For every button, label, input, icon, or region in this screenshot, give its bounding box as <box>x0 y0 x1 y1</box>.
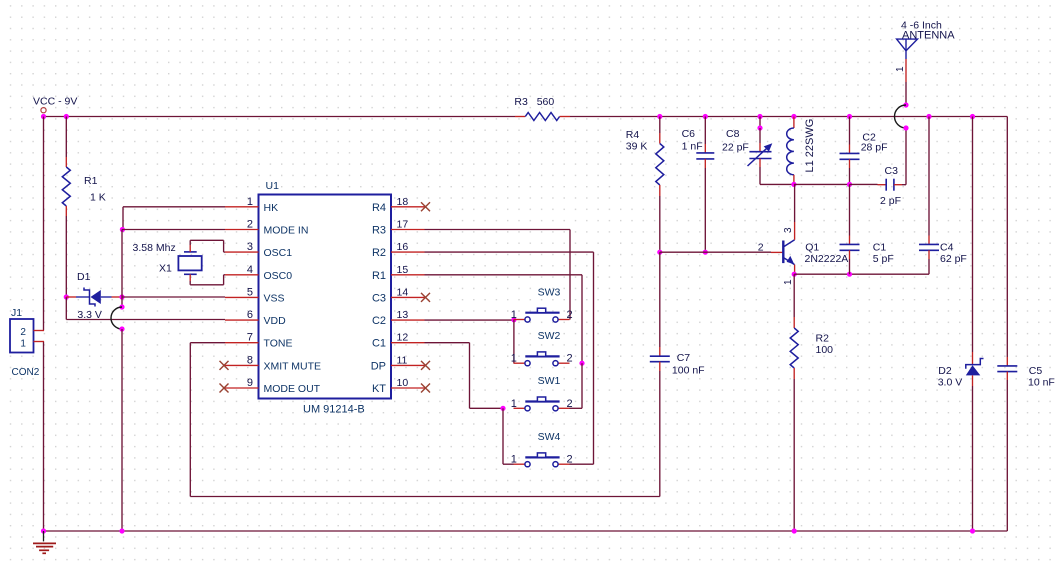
wire VDD net to pin 6 <box>66 319 225 321</box>
junction C2 top at bus <box>847 114 852 119</box>
svg-text:D1: D1 <box>77 271 91 283</box>
pin 1 emitter wire <box>783 265 795 285</box>
svg-text:100: 100 <box>816 344 834 356</box>
svg-text:C1: C1 <box>873 242 887 254</box>
wire VCC bus right segment <box>570 116 1007 118</box>
svg-text:SW1: SW1 <box>538 375 561 387</box>
pin 6 VDD <box>225 309 286 327</box>
connector J1 <box>10 307 40 378</box>
capacitor C4 <box>919 117 967 275</box>
wire VCC to J1 pin 2 <box>43 117 45 331</box>
wire SW2 node down to SW1 pin 2 <box>570 363 583 408</box>
junction pin1-pin2 tie <box>120 227 125 232</box>
svg-text:L1 22SWG: L1 22SWG <box>804 119 816 173</box>
svg-text:1: 1 <box>511 309 517 321</box>
junction ground bus left <box>41 528 46 533</box>
diode D2 3.0 V zener <box>938 352 984 389</box>
wire pin 16 to SW4 pin 2 <box>425 252 594 464</box>
svg-text:VSS: VSS <box>264 292 285 304</box>
svg-text:3.3 V: 3.3 V <box>77 309 102 321</box>
pin 2 MODE IN <box>225 219 308 237</box>
svg-text:C7: C7 <box>677 352 691 364</box>
crystal X1 3.58 Mhz <box>133 242 202 275</box>
wire MODE IN pin 2 link <box>122 229 225 231</box>
switch SW2 <box>511 330 573 366</box>
svg-text:4: 4 <box>247 264 253 276</box>
pin 1 HK <box>225 196 278 214</box>
junction D2 top at bus <box>970 114 975 119</box>
svg-text:2: 2 <box>20 327 26 338</box>
junction C1 bottom at emitter rail <box>847 272 852 277</box>
junction emitter node <box>792 272 797 277</box>
svg-text:SW2: SW2 <box>538 330 561 342</box>
svg-text:R1: R1 <box>372 270 386 282</box>
junction VCC port <box>41 114 46 119</box>
svg-text:3: 3 <box>783 227 794 233</box>
pin 3 OSC1 <box>225 241 292 259</box>
svg-text:12: 12 <box>397 332 409 344</box>
capacitor C3 <box>878 165 907 207</box>
pin 18 R4 <box>372 196 425 214</box>
svg-text:22 pF: 22 pF <box>722 142 749 154</box>
no-connect X pin 18 <box>421 202 430 211</box>
svg-text:1: 1 <box>511 353 517 365</box>
svg-text:62 pF: 62 pF <box>940 253 967 265</box>
pin 8 XMIT MUTE <box>225 354 321 372</box>
wire C5 to ground bus <box>1006 380 1008 531</box>
svg-text:1 nF: 1 nF <box>682 141 703 153</box>
antenna 4-6 inch <box>897 20 956 60</box>
svg-text:1: 1 <box>783 279 794 285</box>
no-connect X pin 11 <box>421 361 430 370</box>
svg-text:560: 560 <box>537 96 555 108</box>
wire ground bus <box>44 530 1008 532</box>
wire crystal bottom to OSC0 pin 4 <box>190 274 225 285</box>
svg-text:18: 18 <box>397 196 409 208</box>
svg-text:15: 15 <box>397 264 409 276</box>
wire pin 13 to SW3 pin 1 <box>425 319 514 321</box>
wire C2 bottom to tank rail <box>849 168 851 184</box>
junction tank rail at C2 <box>847 182 852 187</box>
junction L1 top at bus <box>791 114 796 119</box>
wire C7 bottom down <box>659 371 661 497</box>
pin 9 MODE OUT <box>225 377 321 395</box>
wire emitter rail to C1 and C4 <box>794 273 929 275</box>
svg-text:R1: R1 <box>84 175 98 187</box>
diode D1 3.3 V zener <box>66 271 122 321</box>
svg-text:R2: R2 <box>372 247 386 259</box>
wire C8 bottom to tank rail <box>760 167 794 184</box>
svg-text:ANTENNA: ANTENNA <box>902 30 955 42</box>
svg-text:13: 13 <box>397 309 409 321</box>
resistor R1 <box>62 157 105 216</box>
wire pin 15 to SW2 pin 2 <box>425 275 583 363</box>
svg-text:9: 9 <box>247 377 253 389</box>
junction R1 top at bus <box>64 114 69 119</box>
svg-text:OSC0: OSC0 <box>264 270 293 282</box>
junction R2 at ground bus <box>792 528 797 533</box>
wire C3 to antenna node <box>905 128 907 185</box>
junction antenna hop top <box>903 102 908 107</box>
wire tank rail L1 to C2 <box>794 183 850 185</box>
svg-text:MODE IN: MODE IN <box>264 225 309 237</box>
wire pin 7 TONE to C7 bottom <box>190 343 660 497</box>
svg-text:2: 2 <box>247 219 253 231</box>
switch SW3 <box>511 286 573 322</box>
svg-text:DP: DP <box>371 360 386 372</box>
wire antenna down to hop <box>905 82 907 105</box>
svg-text:1: 1 <box>511 398 517 410</box>
pin 13 C2 <box>372 309 425 327</box>
junction antenna hop bottom <box>903 125 908 130</box>
junction VSS line at ground bus <box>119 528 124 533</box>
pin 11 DP <box>371 354 425 372</box>
svg-text:OSC1: OSC1 <box>264 247 293 259</box>
junction hop bottom <box>119 326 124 331</box>
svg-text:J1: J1 <box>11 307 22 319</box>
svg-text:3: 3 <box>247 241 253 253</box>
svg-text:39 K: 39 K <box>626 141 648 153</box>
wire VSS node to hop <box>121 297 123 307</box>
junction SW2 pin 2 node <box>579 361 584 366</box>
switch SW1 <box>511 375 573 411</box>
wire base rail down to C7 <box>659 252 661 347</box>
svg-text:SW4: SW4 <box>538 431 561 443</box>
wire bus down to D2 <box>972 117 974 353</box>
capacitor C5 <box>997 357 1055 389</box>
pin 4 OSC0 <box>225 264 292 282</box>
svg-text:14: 14 <box>397 286 409 298</box>
no-connect X pin 10 <box>421 384 430 393</box>
svg-text:1: 1 <box>247 196 253 208</box>
resistor R2 <box>790 274 833 379</box>
junction C8 top at bus <box>757 114 762 119</box>
capacitor C6 <box>682 117 715 169</box>
svg-text:1: 1 <box>20 339 26 350</box>
junction SW1 pin 1 node <box>500 406 505 411</box>
no-connect X pin 14 <box>421 293 430 302</box>
svg-text:2 pF: 2 pF <box>880 195 901 207</box>
pin 17 R3 <box>372 219 425 237</box>
wire tank rail C2 to C3 <box>850 183 878 185</box>
capacitor C8 variable 22 pF <box>722 128 772 167</box>
wire VCC bus left segment <box>44 116 516 118</box>
wire hop over VDD wire <box>111 307 122 329</box>
svg-text:TONE: TONE <box>264 338 293 350</box>
svg-text:1 K: 1 K <box>90 192 106 204</box>
switch SW4 <box>511 431 573 467</box>
junction D2 at ground bus <box>970 528 975 533</box>
svg-text:3.0 V: 3.0 V <box>938 377 963 389</box>
wire D2 to ground bus <box>972 386 974 531</box>
wire SW3 pin1 down to SW2 pin 1 <box>513 320 515 363</box>
svg-text:C3: C3 <box>372 292 386 304</box>
pin 2 label of Q1 <box>758 242 764 254</box>
svg-text:X1: X1 <box>159 263 172 275</box>
svg-text:R4: R4 <box>372 202 386 214</box>
svg-text:5 pF: 5 pF <box>873 253 894 265</box>
no-connect X pin 9 <box>220 384 229 393</box>
svg-text:2: 2 <box>567 353 573 365</box>
wire pin2 node down to VSS node <box>121 230 123 298</box>
wire R4 bottom to base rail <box>659 196 661 252</box>
svg-text:2: 2 <box>567 398 573 410</box>
wire HK pin 1 link <box>123 207 225 230</box>
svg-text:7: 7 <box>247 332 253 344</box>
wire pin 17 to SW3 pin 2 <box>425 230 571 320</box>
pin 1 of antenna <box>895 59 906 82</box>
svg-text:R3: R3 <box>514 96 528 108</box>
pin 10 KT <box>372 377 425 395</box>
wire base rail to Q1 base <box>660 251 771 253</box>
svg-text:16: 16 <box>397 241 409 253</box>
pin 12 C1 <box>372 332 425 350</box>
ground <box>33 531 56 553</box>
svg-text:2: 2 <box>758 242 764 254</box>
svg-text:10: 10 <box>397 377 409 389</box>
svg-text:KT: KT <box>372 383 386 395</box>
wire C6 bottom to base rail <box>704 168 706 252</box>
wire crystal top to OSC1 pin 3 <box>190 240 225 252</box>
svg-text:C4: C4 <box>940 242 954 254</box>
junction tank rail at L1 <box>791 182 796 187</box>
svg-text:VCC - 9V: VCC - 9V <box>33 96 77 108</box>
junction D1 cathode / VSS node <box>119 294 124 299</box>
no-connect X pin 8 <box>220 361 229 370</box>
svg-text:HK: HK <box>264 202 279 214</box>
op-amp U1 UM 91214-B body <box>259 180 392 416</box>
svg-text:R3: R3 <box>372 225 386 237</box>
capacitor C7 <box>650 347 705 377</box>
svg-text:2: 2 <box>567 309 573 321</box>
svg-text:1: 1 <box>511 454 517 466</box>
junction C8 wire <box>757 125 762 130</box>
junction base rail at C6 <box>703 250 708 255</box>
junction R4 top at bus <box>657 114 662 119</box>
svg-text:MODE OUT: MODE OUT <box>264 383 321 395</box>
svg-text:Q1: Q1 <box>805 242 819 254</box>
svg-text:28 pF: 28 pF <box>861 142 888 154</box>
wire R1 to D1 node <box>65 216 67 297</box>
svg-text:SW3: SW3 <box>538 286 561 298</box>
svg-text:C5: C5 <box>1029 365 1043 377</box>
svg-text:VDD: VDD <box>264 315 287 327</box>
wire VSS node to bottom bus <box>121 329 123 531</box>
junction C6 top at bus <box>703 114 708 119</box>
svg-text:R2: R2 <box>816 333 830 345</box>
wire pin 12 to SW1 pin 1 <box>425 343 504 409</box>
wire SW1 pin1 down to SW4 pin 1 <box>503 408 514 464</box>
svg-text:17: 17 <box>397 219 409 231</box>
resistor R3 <box>514 96 570 121</box>
wire J1 pin 1 to ground bus <box>43 342 45 532</box>
svg-text:1: 1 <box>895 66 906 72</box>
pin 16 R2 <box>372 241 425 259</box>
svg-text:C2: C2 <box>372 315 386 327</box>
pin 15 R1 <box>372 264 425 282</box>
pin 7 TONE <box>225 332 292 350</box>
wire hop over VCC bus <box>895 105 907 128</box>
svg-text:C6: C6 <box>682 128 696 140</box>
wire VSS net to pin 5 <box>122 296 225 298</box>
junction hop top <box>119 304 124 309</box>
wire D1 node down to VDD corner <box>65 297 67 320</box>
inductor L1 22SWG <box>787 117 816 185</box>
svg-text:D2: D2 <box>938 365 952 377</box>
capacitor C2 <box>840 117 888 169</box>
svg-text:2N2222A: 2N2222A <box>805 253 849 265</box>
svg-text:XMIT MUTE: XMIT MUTE <box>264 360 322 372</box>
junction SW3 pin 1 node <box>511 317 516 322</box>
svg-text:100 nF: 100 nF <box>672 365 705 377</box>
junction D1 anode node <box>64 294 69 299</box>
power port VCC - 9V <box>33 96 77 113</box>
svg-text:U1: U1 <box>266 180 280 192</box>
svg-text:UM 91214-B: UM 91214-B <box>303 404 365 416</box>
svg-text:C3: C3 <box>885 165 899 177</box>
svg-text:C1: C1 <box>372 338 386 350</box>
capacitor C1 <box>840 184 894 274</box>
pin 1 stub of J1 <box>34 341 45 343</box>
wire bus to C8 <box>759 117 761 129</box>
transistor Q1 2N2222A <box>771 240 848 265</box>
wire bus to R1 <box>65 117 67 158</box>
svg-text:10 nF: 10 nF <box>1028 377 1055 389</box>
svg-text:11: 11 <box>397 354 408 366</box>
junction C4 top at bus <box>926 114 931 119</box>
wire bus corner down to C5 <box>1006 117 1008 358</box>
svg-text:2: 2 <box>567 454 573 466</box>
svg-text:C8: C8 <box>726 128 740 140</box>
pin 14 C3 <box>372 286 425 304</box>
wire R2 bottom to ground bus <box>793 379 795 531</box>
svg-text:3.58 Mhz: 3.58 Mhz <box>133 242 176 254</box>
svg-text:CON2: CON2 <box>12 367 40 378</box>
pin 2 stub of J1 <box>34 330 45 332</box>
resistor R4 <box>626 117 664 197</box>
pin 5 VSS <box>225 286 285 304</box>
svg-text:R4: R4 <box>626 129 640 141</box>
svg-text:6: 6 <box>247 309 253 321</box>
svg-text:8: 8 <box>247 354 253 366</box>
pin 3 collector wire <box>783 184 795 239</box>
junction base rail at R4 <box>657 250 662 255</box>
svg-text:5: 5 <box>247 286 253 298</box>
